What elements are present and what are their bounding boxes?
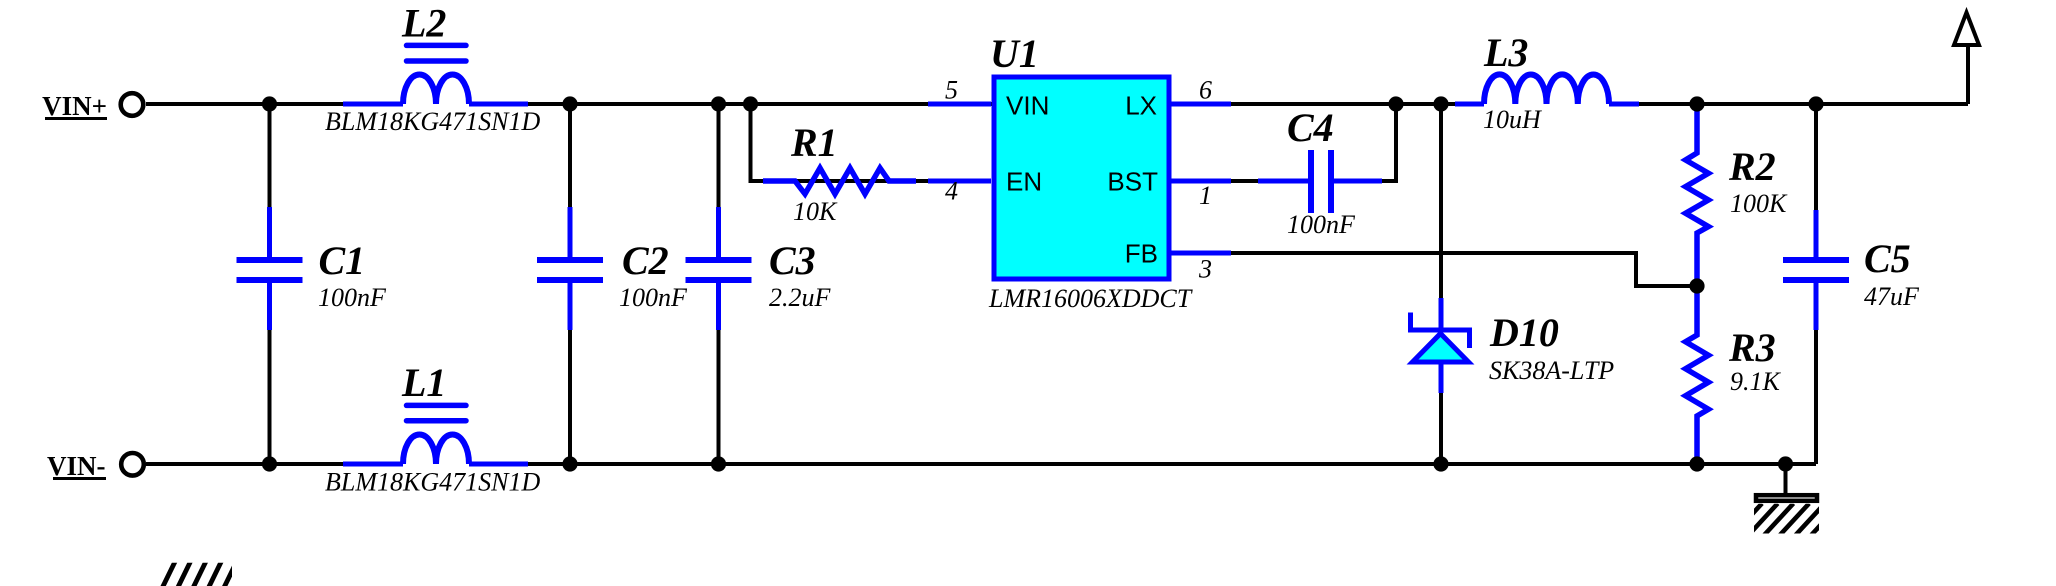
svg-text:3: 3 <box>1198 255 1212 284</box>
svg-text:FB: FB <box>1125 239 1158 269</box>
svg-text:EN: EN <box>1006 167 1042 197</box>
svg-text:VIN: VIN <box>1006 91 1049 121</box>
svg-text:L1: L1 <box>401 360 446 405</box>
svg-text:L2: L2 <box>401 1 446 46</box>
svg-text:C3: C3 <box>769 238 816 283</box>
svg-text:VIN+: VIN+ <box>42 91 107 121</box>
svg-text:L3: L3 <box>1483 30 1528 75</box>
svg-text:100K: 100K <box>1730 189 1788 218</box>
svg-text:5: 5 <box>945 76 958 105</box>
svg-text:C1: C1 <box>319 238 366 283</box>
svg-text:100nF: 100nF <box>619 283 688 312</box>
svg-text:100nF: 100nF <box>1287 210 1356 239</box>
svg-text:BLM18KG471SN1D: BLM18KG471SN1D <box>325 107 540 136</box>
svg-text:LMR16006XDDCT: LMR16006XDDCT <box>988 284 1193 313</box>
svg-text:6: 6 <box>1199 76 1212 105</box>
svg-text:SK38A-LTP: SK38A-LTP <box>1489 356 1614 385</box>
svg-text:9.1K: 9.1K <box>1730 367 1782 396</box>
svg-text:47uF: 47uF <box>1864 282 1920 311</box>
svg-text:4: 4 <box>945 177 958 206</box>
svg-text:10uH: 10uH <box>1483 105 1542 134</box>
svg-text:C5: C5 <box>1864 236 1911 281</box>
svg-text:1: 1 <box>1199 181 1212 210</box>
svg-text:BLM18KG471SN1D: BLM18KG471SN1D <box>325 468 540 497</box>
svg-text:C4: C4 <box>1287 105 1334 150</box>
svg-text:C2: C2 <box>622 238 669 283</box>
svg-text:R1: R1 <box>790 120 838 165</box>
svg-text:D10: D10 <box>1489 310 1559 355</box>
svg-text:10K: 10K <box>793 197 838 226</box>
svg-text:R3: R3 <box>1728 325 1776 370</box>
svg-text:100nF: 100nF <box>318 283 387 312</box>
svg-text:VIN-: VIN- <box>47 451 106 481</box>
svg-text:2.2uF: 2.2uF <box>769 283 832 312</box>
svg-text:R2: R2 <box>1728 144 1776 189</box>
svg-text:BST: BST <box>1107 167 1158 197</box>
svg-text:LX: LX <box>1125 91 1157 121</box>
svg-text:U1: U1 <box>990 31 1039 76</box>
